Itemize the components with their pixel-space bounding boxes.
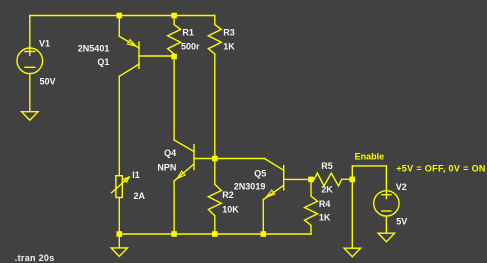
junction bottom rail / Q4 emitter xyxy=(171,231,177,237)
svg-text:1K: 1K xyxy=(319,213,331,223)
svg-text:I1: I1 xyxy=(132,170,140,180)
junction Q5 base / R4 / R5 xyxy=(308,177,314,183)
wire Q5 emitter down to bottom rail xyxy=(262,199,264,234)
transistor Q4 (NPN) xyxy=(174,140,194,181)
junction R5 right / Enable xyxy=(350,177,356,183)
ground (V1) xyxy=(22,112,38,121)
svg-text:Q1: Q1 xyxy=(97,57,109,67)
svg-text:500r: 500r xyxy=(181,42,200,52)
junction R1 bottom / Q1 base xyxy=(171,54,177,60)
wire V2 bottom lead xyxy=(385,216,387,233)
wire Q4 emitter down to bottom rail xyxy=(173,181,175,234)
svg-text:2N3019: 2N3019 xyxy=(234,182,266,192)
resistor R4 xyxy=(305,179,318,234)
junction Q4 base / R3 / R2 xyxy=(212,156,218,162)
wire V1 bottom lead xyxy=(29,74,31,112)
resistor R5 xyxy=(311,173,352,186)
wire V1 top lead xyxy=(29,16,31,49)
svg-text:V1: V1 xyxy=(39,39,50,49)
svg-text:V2: V2 xyxy=(396,182,407,192)
svg-text:R2: R2 xyxy=(222,190,234,200)
junction top rail / R1 xyxy=(171,13,177,19)
svg-text:10K: 10K xyxy=(222,205,239,215)
wire I1 bottom to bottom rail xyxy=(118,198,120,235)
voltage source V2 xyxy=(374,191,399,216)
junction bottom rail / Q5 emitter xyxy=(261,231,267,237)
wire Q5 base xyxy=(284,178,311,180)
wire Q4 base xyxy=(194,158,215,160)
svg-text:R5: R5 xyxy=(321,161,333,171)
svg-text:Enable: Enable xyxy=(355,151,385,161)
transistor Q5 (NPN 2N3019) xyxy=(263,159,283,200)
wire R1 node down to Q4 collector xyxy=(173,57,175,141)
svg-text:50V: 50V xyxy=(40,76,56,86)
current source I1 xyxy=(112,176,130,198)
svg-text:+5V = OFF, 0V = ON: +5V = OFF, 0V = ON xyxy=(396,163,486,173)
voltage source V1 xyxy=(17,48,43,74)
wire Q1 collector down to I1 top xyxy=(118,76,120,175)
svg-text:2N5401: 2N5401 xyxy=(78,43,110,53)
svg-text:R3: R3 xyxy=(223,27,235,37)
wire Enable node vertical xyxy=(351,166,353,248)
ground (V2) xyxy=(378,233,394,242)
svg-text:1K: 1K xyxy=(223,42,235,52)
wire top rail V1 to R3 xyxy=(30,15,215,17)
resistor R1 xyxy=(168,16,181,57)
ground (bottom rail) xyxy=(111,248,127,257)
svg-text:5V: 5V xyxy=(396,216,407,226)
junction bottom rail / R2 xyxy=(212,231,218,237)
svg-text:Q4: Q4 xyxy=(164,148,176,158)
wire stub to ground below rail xyxy=(118,234,120,248)
wire R3 bottom down to Q4 base node xyxy=(214,57,216,159)
svg-text:.tran 20s: .tran 20s xyxy=(15,253,55,263)
junction bottom rail / ground xyxy=(117,231,123,237)
svg-text:R1: R1 xyxy=(182,27,194,37)
svg-text:2K: 2K xyxy=(321,184,333,194)
ground (Enable branch) xyxy=(344,248,360,257)
transistor Q1 (PNP 2N5401) xyxy=(119,36,139,76)
wire V2 top lead xyxy=(385,166,387,191)
junction top rail / Q1 emitter xyxy=(117,13,123,19)
svg-text:R4: R4 xyxy=(319,199,331,209)
wire Q1 emitter riser xyxy=(118,16,120,37)
wire Enable horizontal xyxy=(352,165,386,167)
bottom rail wire xyxy=(119,233,311,235)
resistor R3 xyxy=(208,16,221,57)
wire Q1 base to R1 bottom node xyxy=(139,55,174,57)
svg-text:Q5: Q5 xyxy=(254,169,266,179)
resistor R2 xyxy=(208,159,221,235)
svg-text:NPN: NPN xyxy=(157,163,176,173)
svg-text:2A: 2A xyxy=(134,191,146,201)
wire Q4 base node to Q5 collector xyxy=(215,158,265,160)
